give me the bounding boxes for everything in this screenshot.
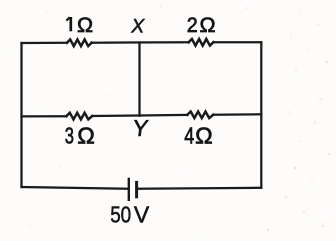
wire top-left (left corner to R1) — [22, 42, 67, 44]
svg-text:50: 50 — [110, 202, 131, 228]
wire right vertical — [260, 42, 262, 188]
svg-text:V: V — [134, 202, 150, 228]
battery B1 — [129, 178, 137, 201]
label 1 Ω — [66, 13, 93, 37]
svg-text:3: 3 — [65, 122, 74, 148]
label 2 Ω — [187, 13, 216, 37]
wire middle-center (R3 to R4 through node Y) — [92, 115, 187, 116]
wire left vertical — [20, 43, 22, 187]
wire bottom-right (battery to right corner) — [137, 188, 262, 189]
resistor R1 — [67, 40, 92, 47]
node Y — [131, 115, 150, 141]
wire X-Y branch (middle vertical) — [138, 43, 140, 116]
svg-text:Ω: Ω — [195, 122, 213, 148]
svg-text:Y: Y — [131, 115, 150, 141]
wire top-right (R2 to right corner) — [213, 41, 261, 43]
wire bottom-left (left corner to battery) — [22, 187, 129, 189]
label 3 Ω — [65, 122, 95, 148]
svg-text:X: X — [130, 15, 145, 37]
label 50 V — [110, 202, 150, 228]
svg-text:Ω: Ω — [77, 122, 95, 148]
label 4 Ω — [184, 122, 212, 148]
svg-text:Ω: Ω — [200, 13, 216, 37]
wire middle-left (left rail to R3) — [22, 115, 67, 117]
wire middle-right (R4 to right rail) — [213, 113, 261, 116]
svg-text:4: 4 — [184, 122, 194, 148]
wire top-middle (R1 to R2 through node X) — [92, 41, 189, 44]
resistor R2 — [189, 39, 214, 46]
svg-text:Ω: Ω — [77, 13, 93, 37]
node X — [130, 15, 145, 37]
resistor R4 — [187, 112, 213, 119]
svg-text:2: 2 — [187, 13, 198, 37]
resistor R3 — [66, 113, 92, 120]
